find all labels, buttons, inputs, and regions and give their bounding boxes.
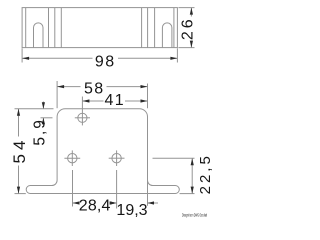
arrows dim 28,4	[73, 201, 80, 204]
svg-text:41: 41	[104, 92, 125, 109]
dim 54 extension bottom	[15, 193, 26, 195]
arrows dim 19,3 (outside)	[110, 201, 117, 204]
hole2 extension down	[72, 170, 74, 207]
arrows dim 5,9 (outside)	[42, 102, 45, 109]
top view right bend line 1	[141, 8, 143, 48]
svg-text:5,9: 5,9	[32, 118, 49, 146]
top view left end inner line	[25, 8, 27, 48]
dim 26 extension lines	[178, 7, 194, 9]
arrows dim 54	[17, 109, 20, 116]
top view left bend line 1	[48, 8, 50, 48]
top view left bend line 2	[54, 8, 56, 48]
dim 98 extension lines	[21, 48, 23, 62]
top view left slot	[34, 23, 44, 48]
hole H1 centerlines	[75, 117, 90, 119]
dim 28,4 line	[73, 202, 79, 204]
svg-text:98: 98	[95, 53, 116, 70]
dim 58 line	[57, 86, 80, 88]
dim 22,5 line	[191, 158, 193, 193]
top view left bend line 3	[60, 8, 62, 48]
arrows dim 58	[57, 85, 64, 88]
arrows dim 98	[22, 57, 29, 60]
dim 54 line	[18, 109, 20, 137]
hole3 extension down	[116, 170, 118, 209]
arrows dim 22,5	[191, 158, 194, 165]
top view right bend line 3	[154, 8, 156, 48]
arrows dim 41	[82, 99, 89, 102]
hole H3 centerlines	[109, 157, 125, 159]
svg-text:Disegni tecn DWG Osculati: Disegni tecn DWG Osculati	[182, 213, 207, 218]
dim 22,5 extension lines	[153, 157, 195, 159]
dim 19,3 line stub	[148, 202, 159, 204]
hole H2 centerlines	[64, 157, 80, 159]
right edge extension down	[147, 180, 149, 206]
hole H3	[112, 154, 121, 163]
top view right end inner line	[173, 8, 175, 48]
top view right bend line 2	[147, 8, 149, 48]
svg-text:28,4: 28,4	[79, 198, 111, 215]
top view right slot	[162, 23, 172, 48]
front view outline	[26, 109, 179, 194]
svg-text:54: 54	[10, 137, 29, 164]
dim 26 line	[190, 8, 192, 17]
dim 5,9 extension: top edge extended left	[15, 108, 54, 110]
arrows dim 26	[190, 8, 193, 15]
dim 41 line	[82, 100, 103, 102]
svg-text:58: 58	[84, 80, 105, 97]
svg-text:22,5: 22,5	[197, 153, 214, 194]
dim 98 line	[22, 57, 92, 59]
hole H1	[78, 113, 87, 122]
svg-text:26: 26	[180, 16, 197, 40]
hole H2	[68, 154, 77, 163]
dim 5,9 line	[42, 102, 44, 109]
svg-text:19,3: 19,3	[116, 202, 147, 219]
dim 58 extension lines	[56, 81, 58, 108]
top view outline	[22, 8, 177, 48]
hole1 centerline extended left	[41, 117, 53, 119]
